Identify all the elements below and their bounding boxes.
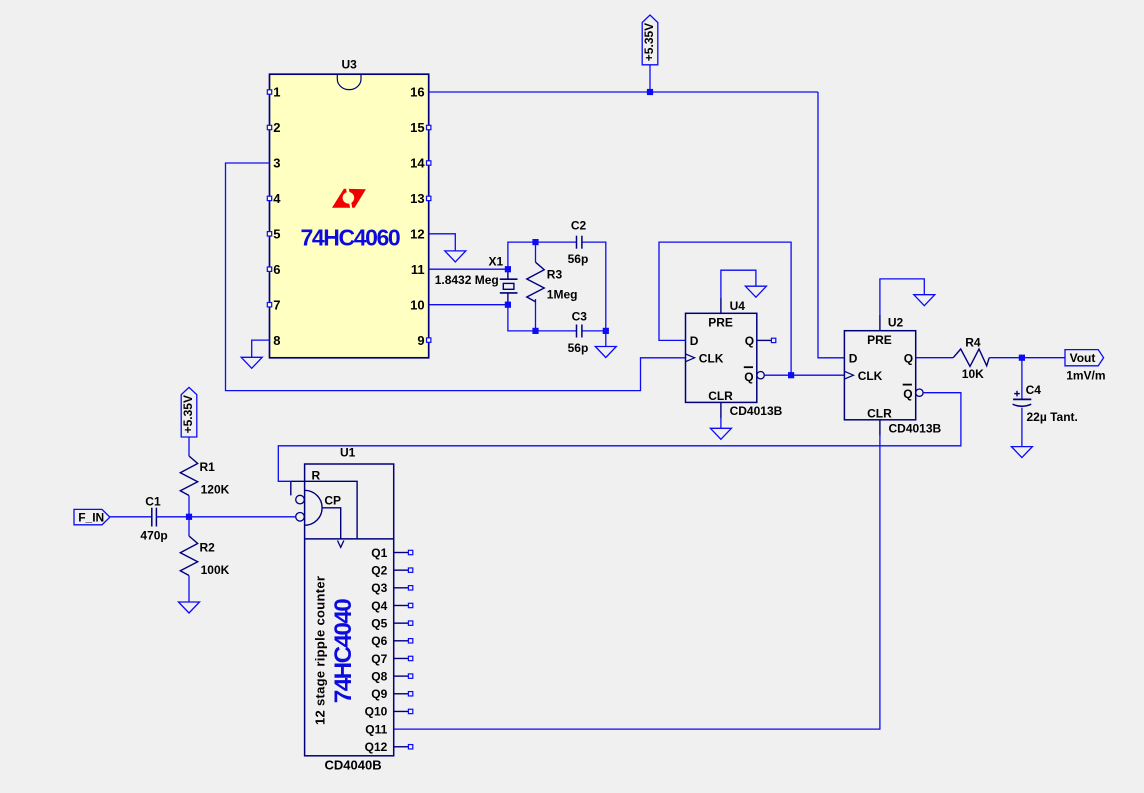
wire crystal bottom rail to C3 — [508, 305, 577, 331]
svg-text:CLR: CLR — [708, 389, 733, 403]
svg-text:Q: Q — [744, 370, 753, 384]
capacitor C2 — [576, 236, 578, 249]
svg-text:CP: CP — [324, 493, 341, 507]
svg-text:6: 6 — [273, 262, 280, 277]
svg-text:Q8: Q8 — [371, 669, 387, 683]
wire U2 Qbar to U1 R input — [278, 393, 961, 482]
svg-text:5: 5 — [273, 227, 280, 242]
svg-text:Q9: Q9 — [371, 687, 387, 701]
resistor R4 — [953, 349, 989, 366]
svg-text:13: 13 — [410, 191, 424, 206]
wire U4 PRE to ground — [720, 297, 722, 313]
svg-text:Q7: Q7 — [371, 652, 387, 666]
svg-text:100K: 100K — [201, 563, 230, 577]
wire U3 pin10 to crystal bottom — [429, 304, 508, 306]
ground R2 — [179, 602, 200, 613]
svg-text:PRE: PRE — [708, 315, 733, 329]
resistor R2 — [180, 536, 197, 576]
svg-text:CLR: CLR — [867, 406, 892, 420]
resistor R1 — [180, 456, 197, 496]
svg-text:10: 10 — [410, 297, 424, 312]
svg-text:10K: 10K — [962, 367, 984, 381]
svg-text:Q10: Q10 — [365, 705, 388, 719]
ground xtal — [595, 347, 616, 358]
svg-text:U4: U4 — [730, 299, 746, 313]
U1 CP input bubble — [296, 513, 305, 522]
svg-text:74HC4040: 74HC4040 — [330, 599, 357, 703]
junction X1 top — [505, 266, 511, 272]
input flag F_IN — [74, 509, 110, 524]
svg-text:4: 4 — [273, 191, 281, 206]
junction R3 bottom — [532, 328, 538, 334]
svg-text:C1: C1 — [145, 494, 161, 508]
svg-text:Q: Q — [745, 334, 754, 348]
ground pin12 — [445, 251, 466, 262]
ground C4 — [1011, 447, 1032, 458]
capacitor C3 — [576, 325, 578, 338]
svg-text:Q2: Q2 — [371, 563, 387, 577]
svg-text:D: D — [849, 351, 858, 365]
svg-text:9: 9 — [417, 333, 424, 348]
IC U3 74HC4060 body — [270, 74, 429, 358]
svg-text:470p: 470p — [140, 529, 167, 543]
wire C2 right to bottom rail / ground — [582, 242, 606, 346]
svg-text:C4: C4 — [1026, 383, 1042, 397]
junction C3/C2 ground node — [603, 328, 609, 334]
svg-text:R4: R4 — [965, 335, 981, 349]
svg-text:120K: 120K — [201, 482, 230, 496]
wire flag to R1 — [188, 437, 190, 456]
svg-text:F_IN: F_IN — [78, 511, 104, 525]
U2 clock input triangle — [844, 371, 853, 379]
wire R4 to Vout — [989, 357, 1065, 359]
svg-text:Q12: Q12 — [365, 740, 388, 754]
flip-flop U4 CD4013B body — [686, 313, 757, 402]
resistor R3 — [527, 262, 544, 302]
svg-text:12: 12 — [410, 227, 424, 242]
svg-text:1: 1 — [273, 85, 280, 100]
svg-text:D: D — [690, 334, 699, 348]
IC U1 74HC4040 body — [305, 464, 394, 756]
svg-text:3: 3 — [273, 156, 280, 171]
U4 Qbar bubble — [757, 372, 764, 379]
wire R2 to ground — [188, 576, 190, 603]
svg-text:C3: C3 — [572, 309, 588, 323]
junction Vout node — [1019, 355, 1025, 361]
junction X1 bottom — [505, 302, 511, 308]
wire U4 D feedback loop — [659, 242, 791, 375]
wire U2 CLR to U1 Q11 — [879, 420, 881, 436]
svg-text:1.8432 Meg: 1.8432 Meg — [435, 273, 499, 287]
svg-text:PRE: PRE — [867, 333, 892, 347]
svg-text:+5.35V: +5.35V — [181, 395, 195, 433]
svg-text:Q: Q — [903, 387, 912, 401]
svg-text:56p: 56p — [568, 341, 589, 355]
power flag +5.35V (top, pin16 net) — [642, 15, 658, 65]
wire U4 Qbar to U2 CLK — [764, 374, 844, 376]
wire R3 top stub — [535, 242, 537, 262]
junction U4 D feedback node — [788, 372, 794, 378]
svg-text:Q: Q — [904, 351, 913, 365]
power flag +5.35V (above R1) — [181, 387, 197, 437]
wire U3 pin16 to +5.35V rail corner — [429, 91, 818, 93]
svg-text:Q5: Q5 — [371, 616, 387, 630]
svg-text:U2: U2 — [888, 315, 904, 329]
svg-text:74HC4060: 74HC4060 — [301, 225, 400, 251]
svg-text:Q3: Q3 — [371, 581, 387, 595]
ground U2 PRE — [914, 295, 935, 306]
wire crystal top rail to C2 — [508, 242, 577, 269]
wire U3 pin11 to crystal top — [429, 268, 508, 270]
junction R3 top — [532, 239, 538, 245]
wire rail down to U2 D — [818, 92, 844, 358]
svg-text:+5.35V: +5.35V — [642, 23, 656, 61]
svg-text:22µ Tant.: 22µ Tant. — [1027, 410, 1078, 424]
wire C3 right to junction — [582, 330, 606, 332]
flip-flop U2 CD4013B body — [844, 331, 915, 420]
wire F_IN to C1 — [110, 516, 152, 518]
svg-text:CD4013B: CD4013B — [730, 404, 783, 418]
svg-text:12 stage ripple counter: 12 stage ripple counter — [313, 576, 328, 725]
svg-text:R: R — [312, 468, 321, 482]
wire C4 to ground — [1021, 408, 1023, 447]
U4 Q antenna stub — [757, 339, 772, 341]
svg-text:CD4040B: CD4040B — [325, 757, 382, 772]
wire U3 pin12 to ground — [429, 234, 456, 251]
U1 R input path — [291, 481, 357, 539]
svg-text:Q4: Q4 — [371, 599, 387, 613]
svg-text:X1: X1 — [489, 254, 504, 268]
svg-text:11: 11 — [411, 262, 425, 277]
U1 R input bubble — [296, 495, 305, 504]
U3 unconnected pin squares left (pins 1,2,4,5,6,7) — [267, 90, 271, 94]
svg-text:Q11: Q11 — [365, 722, 387, 736]
wire R3 bottom stub — [535, 299, 537, 331]
crystal X1 — [507, 269, 509, 279]
wire U3 pin8 to ground — [252, 340, 270, 357]
U2 Qbar bubble — [916, 389, 923, 396]
wire U4 CLR to ground — [720, 402, 722, 418]
svg-text:R1: R1 — [200, 460, 216, 474]
svg-text:CLK: CLK — [699, 351, 724, 365]
svg-text:Q6: Q6 — [371, 634, 387, 648]
ground U4 PRE — [745, 286, 766, 297]
ground U4 CLR — [710, 428, 731, 439]
U4 clock input triangle — [686, 354, 695, 362]
junction F_IN bias node — [186, 514, 192, 520]
svg-text:Vout: Vout — [1070, 351, 1096, 365]
svg-text:U1: U1 — [340, 446, 356, 460]
svg-text:14: 14 — [410, 156, 425, 171]
LT logo — [332, 189, 366, 209]
wire flag stem to pin16 net — [649, 65, 651, 92]
svg-text:CLK: CLK — [858, 369, 883, 383]
junction +5.35V tap — [647, 89, 653, 95]
svg-text:56p: 56p — [568, 252, 589, 266]
U1 CP gate half-circle — [305, 490, 323, 525]
wire U2 Q to R4 — [916, 357, 954, 359]
U3 unconnected pin squares right (pins 15,14,13,9) — [427, 125, 431, 129]
wire U3 pin3 to U4 CLK — [226, 163, 686, 391]
U1 CP internal route with arrow — [322, 508, 341, 539]
svg-text:CD4013B: CD4013B — [889, 421, 942, 435]
svg-text:1mV/m: 1mV/m — [1066, 368, 1105, 382]
wire C1 to U1 CP — [156, 516, 295, 518]
svg-text:2: 2 — [273, 120, 280, 135]
svg-text:15: 15 — [410, 120, 424, 135]
svg-text:R2: R2 — [200, 541, 216, 555]
U1 internal divider — [305, 538, 394, 540]
svg-text:1Meg: 1Meg — [547, 288, 578, 302]
svg-text:C2: C2 — [571, 218, 587, 232]
svg-text:8: 8 — [273, 333, 280, 348]
svg-text:U3: U3 — [342, 57, 358, 71]
ground pin8 — [241, 357, 262, 368]
svg-text:7: 7 — [273, 297, 280, 312]
capacitor C1 — [151, 508, 153, 527]
svg-text:R3: R3 — [547, 267, 563, 281]
wire R1 to R2 through node — [188, 496, 190, 537]
capacitor C4 — [1021, 358, 1023, 400]
output flag Vout — [1065, 350, 1104, 366]
svg-text:16: 16 — [410, 85, 424, 100]
svg-text:Q1: Q1 — [371, 546, 387, 560]
wire U2 PRE to ground — [879, 315, 881, 331]
